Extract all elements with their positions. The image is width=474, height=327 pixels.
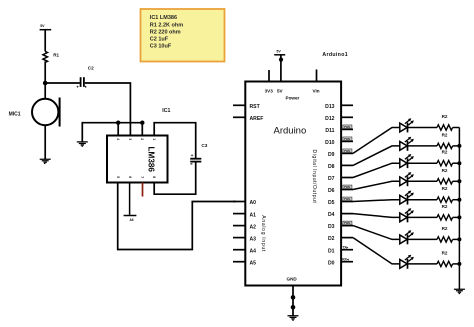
svg-text:A1: A1: [250, 212, 257, 218]
LED LED4: [400, 172, 414, 186]
ground (mic): [40, 159, 51, 163]
wire D4 to LED6: [353, 214, 400, 218]
svg-text:RX◂: RX◂: [342, 258, 349, 262]
svg-text:R2: R2: [442, 186, 448, 191]
pin stub D10: [341, 140, 353, 142]
svg-text:Power: Power: [286, 96, 300, 101]
resistor R2 (row 4): [437, 179, 453, 184]
LED LED6: [400, 208, 414, 222]
svg-text:C2: C2: [88, 65, 94, 70]
LED LED8: [400, 255, 414, 269]
label PWM (D5): [343, 197, 352, 201]
junction bus row 7: [457, 237, 461, 241]
svg-text:5V: 5V: [276, 49, 281, 53]
wire LED8 to R2: [408, 263, 438, 265]
wire R2 to ground bus (row 4): [453, 180, 460, 182]
microphone MIC1: [32, 98, 60, 127]
wire LED7 to R2: [408, 238, 438, 240]
pin stub D7: [341, 177, 353, 179]
wire LED6 to R2: [408, 216, 438, 218]
svg-text:Arduino1: Arduino1: [322, 52, 348, 58]
junction on GND wire (upper): [291, 295, 296, 300]
resistor R2 (row 3): [437, 161, 453, 166]
ground (IC1): [77, 142, 88, 146]
resistor R2 (row 5): [437, 197, 453, 202]
junction bus row 3: [457, 161, 461, 165]
svg-text:PWM: PWM: [344, 149, 351, 153]
pin stub AREF: [233, 116, 246, 118]
pin stub A5: [233, 261, 246, 263]
wire R2 to ground bus (row 3): [453, 162, 460, 164]
svg-text:3: 3: [128, 138, 132, 140]
wire D5 to LED5: [353, 200, 400, 202]
Arduino U-board body Arduino1: [245, 82, 341, 286]
pin stub D8: [341, 164, 353, 166]
wire D3 to LED7: [353, 226, 400, 240]
svg-text:PWM: PWM: [344, 185, 351, 189]
pin stub D5: [341, 201, 353, 203]
label PWM (D11): [343, 125, 352, 129]
wire R2 to ground bus (row 2): [453, 145, 460, 147]
svg-text:D10: D10: [325, 140, 335, 146]
svg-text:C3: C3: [201, 143, 207, 148]
junction node (R1 / C2 / MIC1): [43, 81, 48, 86]
pin stub A1: [233, 213, 246, 215]
pin stub A2: [233, 225, 246, 227]
svg-text:R2: R2: [442, 114, 448, 119]
resistor R2 (row 7): [437, 237, 453, 242]
wire R2 to ground bus (row 8): [453, 263, 460, 265]
LED LED7: [400, 230, 414, 244]
note box (component values): [141, 9, 225, 62]
pin stub D13: [341, 104, 353, 106]
junction bus row 4: [457, 179, 461, 183]
wire R2 to ground bus (row 6): [453, 216, 460, 218]
svg-text:PWM: PWM: [344, 221, 351, 225]
op-amp IC1 LM386 body: [107, 136, 168, 183]
wire pin4 stub: [117, 123, 119, 136]
wire LED5 to R2: [408, 199, 438, 201]
resistor R2 (row 6): [437, 215, 453, 220]
wire pin1 to C3 top: [154, 123, 196, 158]
svg-text:C2 1uF: C2 1uF: [150, 37, 169, 43]
pin stub Vin: [316, 70, 318, 82]
ground (Arduino GND): [288, 316, 299, 320]
svg-text:D8: D8: [328, 164, 335, 170]
capacitor C3: [190, 154, 201, 164]
svg-text:R2: R2: [442, 204, 448, 209]
wire ground bus (right): [458, 128, 460, 290]
wire LED2 to R2: [408, 145, 438, 147]
wire LED4 to R2: [408, 180, 438, 182]
resistor R1: [43, 51, 48, 62]
junction bus row 5: [457, 198, 461, 202]
resistor R2 (row 2): [437, 143, 453, 148]
svg-text:1: 1: [152, 138, 156, 140]
wire LED3 to R2: [408, 162, 438, 164]
svg-text:Vin: Vin: [313, 89, 320, 94]
svg-text:D13: D13: [325, 104, 335, 110]
svg-text:+: +: [76, 85, 79, 90]
wire GND pin to ground: [292, 286, 294, 316]
pin stub A3: [233, 237, 246, 239]
wire C3 bottom to pin8: [154, 163, 196, 195]
junction bus row 8: [457, 262, 461, 266]
junction on GND wire (lower): [291, 305, 296, 310]
LED LED5: [400, 191, 414, 205]
wire C2 to pin3 of IC1: [85, 83, 131, 136]
svg-text:6: 6: [128, 176, 132, 178]
label PWM (D9): [343, 149, 352, 153]
svg-text:D12: D12: [325, 116, 335, 122]
pin stub D4: [341, 213, 353, 215]
pin stub D9: [341, 152, 353, 154]
svg-text:5V: 5V: [277, 89, 284, 94]
svg-text:GND: GND: [287, 277, 298, 282]
svg-text:IC1: IC1: [162, 108, 170, 114]
svg-text:D0: D0: [328, 260, 335, 266]
svg-text:PWM: PWM: [344, 197, 351, 201]
pin stub D12: [341, 116, 353, 118]
svg-text:IC1 LM386: IC1 LM386: [150, 15, 177, 21]
svg-text:AREF: AREF: [250, 116, 264, 122]
pin stub 3V3: [268, 70, 270, 82]
svg-text:Digital Input/Output: Digital Input/Output: [311, 150, 317, 204]
pin stub D3: [341, 225, 353, 227]
capacitor C2: [76, 77, 86, 90]
svg-text:D2: D2: [328, 236, 335, 242]
wire R2 to ground bus (row 5): [453, 199, 460, 201]
wire pin7 (red): [142, 183, 144, 197]
svg-text:2: 2: [140, 138, 144, 140]
svg-text:D5: D5: [328, 200, 335, 206]
pin stub RST: [233, 104, 246, 106]
pin stub A0: [233, 201, 246, 203]
LED LED2: [400, 137, 414, 151]
wire D2 to LED8: [353, 238, 400, 264]
svg-text:3V3: 3V3: [265, 89, 274, 94]
junction bus row 2: [457, 144, 461, 148]
svg-text:A4: A4: [250, 248, 257, 254]
wire R2 to ground bus (row 1): [453, 127, 460, 129]
wire pin6 stub: [129, 183, 131, 215]
wire D6 to LED4: [353, 181, 400, 189]
svg-text:5V: 5V: [40, 24, 45, 28]
svg-text:R2: R2: [442, 150, 448, 155]
svg-text:PWM: PWM: [344, 137, 351, 141]
svg-text:MIC1: MIC1: [9, 112, 21, 118]
pin stub D6: [341, 189, 353, 191]
junction on 5V wire: [279, 58, 283, 62]
svg-text:R2: R2: [442, 168, 448, 173]
junction pin4/ground wire: [116, 121, 120, 125]
wire D7 to LED3: [353, 163, 400, 177]
svg-text:Arduino: Arduino: [274, 126, 307, 137]
svg-text:R2: R2: [442, 250, 448, 255]
wire R2 to ground bus (row 7): [453, 238, 460, 240]
pin stub D11: [341, 128, 353, 130]
svg-text:D6: D6: [328, 188, 335, 194]
svg-text:R2 220 ohm: R2 220 ohm: [150, 29, 181, 35]
pin stub D2: [341, 237, 353, 239]
wire MIC1 to ground: [44, 125, 46, 159]
pin stub A4: [233, 249, 246, 251]
svg-text:5: 5: [116, 176, 120, 178]
svg-text:+: +: [191, 154, 194, 159]
label PWM (D6): [343, 185, 352, 189]
power symbol 5V (Arduino): [274, 49, 285, 55]
LED LED1: [400, 118, 414, 132]
pin stub D1: [341, 249, 353, 251]
svg-text:R2: R2: [442, 226, 448, 231]
svg-text:PWM: PWM: [344, 125, 351, 129]
svg-text:R2: R2: [442, 132, 448, 137]
svg-text:A0: A0: [250, 200, 257, 206]
svg-text:RST: RST: [250, 104, 261, 110]
wire LED1 to R2: [408, 127, 438, 129]
svg-text:D4: D4: [328, 212, 335, 218]
wire pin5 to A0 (output loop): [118, 183, 236, 250]
wire D8 to LED2: [353, 146, 400, 166]
svg-text:D3: D3: [328, 224, 335, 230]
label PWM (D3): [343, 221, 352, 225]
svg-text:A2: A2: [250, 224, 257, 230]
junction pin2/ground wire: [140, 121, 144, 125]
ground (LED bus): [454, 289, 465, 293]
svg-text:D11: D11: [325, 128, 334, 134]
wire D9 to LED1: [353, 128, 400, 154]
wire node to C2: [45, 82, 80, 84]
svg-text:A3: A3: [250, 236, 257, 242]
svg-text:A6: A6: [130, 218, 134, 222]
net stub bar (pin6): [124, 215, 137, 217]
wire 5V symbol to 5V pin: [280, 55, 282, 82]
pin stub D0: [341, 261, 353, 263]
wire 5V to R1: [44, 30, 46, 52]
svg-text:TX▸: TX▸: [342, 246, 348, 250]
svg-text:D7: D7: [328, 176, 335, 182]
svg-text:D9: D9: [328, 152, 335, 158]
svg-text:C3 10uF: C3 10uF: [150, 44, 172, 50]
svg-text:R1 2.2K ohm: R1 2.2K ohm: [150, 22, 183, 28]
wire R1 to mic node: [44, 61, 46, 99]
svg-text:4: 4: [116, 138, 120, 140]
svg-text:R1: R1: [53, 53, 59, 58]
power symbol 5V (mic supply): [40, 24, 52, 30]
label PWM (D10): [343, 137, 352, 141]
svg-text:8: 8: [152, 176, 156, 178]
resistor R2 (row 8): [437, 261, 453, 266]
svg-text:7: 7: [140, 176, 144, 178]
svg-text:LM386: LM386: [147, 147, 156, 173]
svg-text:Analog Input: Analog Input: [260, 215, 266, 252]
LED LED3: [400, 154, 414, 168]
ground wire for IC1 pins 2 and 4: [82, 123, 142, 142]
svg-text:A5: A5: [250, 260, 257, 266]
svg-text:D1: D1: [328, 248, 335, 254]
junction bus row 6: [457, 215, 461, 219]
resistor R2 (row 1): [437, 125, 453, 130]
